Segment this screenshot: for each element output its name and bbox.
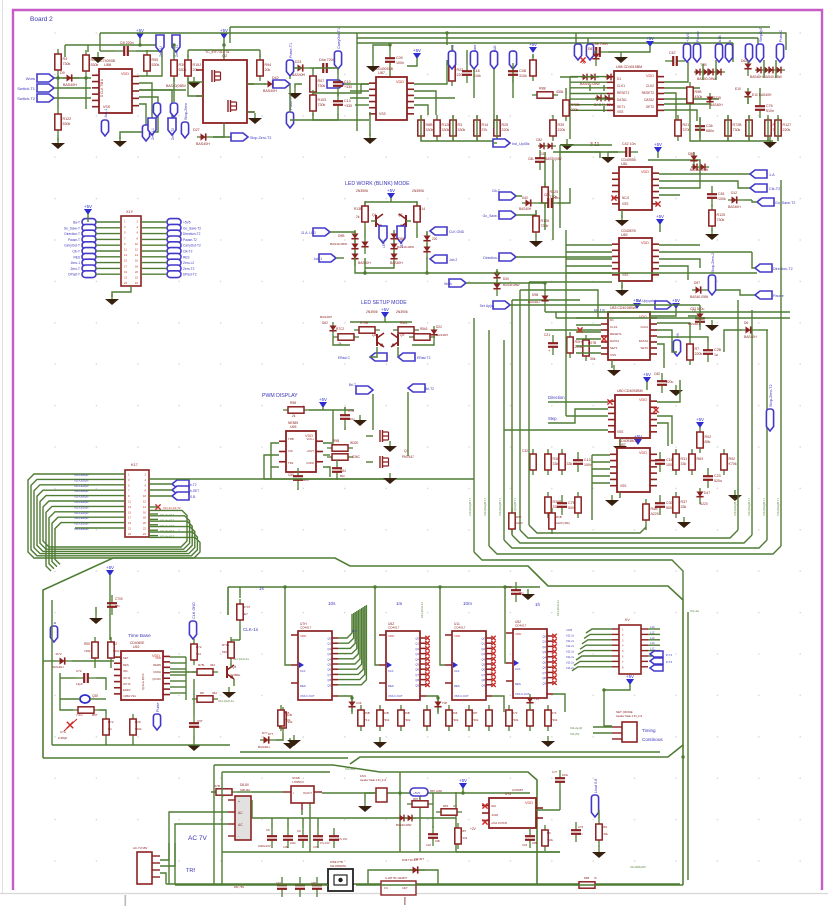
svg-text:Q0: Q0	[327, 637, 331, 641]
svg-text:98n: 98n	[115, 604, 120, 608]
svg-text:QC15C: QC15C	[152, 677, 161, 681]
svg-text:33k: 33k	[553, 462, 559, 466]
ground pwm mos1	[389, 441, 391, 446]
svg-text:730k: 730k	[717, 218, 725, 222]
svg-text:D9B: D9B	[338, 234, 345, 238]
svg-text:Q1: Q1	[542, 640, 546, 644]
svg-text:Switch-T1: Switch-T1	[17, 86, 36, 91]
svg-text:D6: D6	[744, 321, 748, 325]
svg-text:b-SET: b-SET	[190, 489, 199, 493]
wire caps rail	[222, 851, 560, 853]
ground A-mid	[119, 136, 121, 141]
svg-text:+5V: +5V	[654, 142, 662, 147]
svg-text:S36C: S36C	[352, 455, 361, 459]
svg-text:CLK: CLK	[300, 669, 306, 673]
SET/MODE left wires	[593, 726, 612, 728]
svg-text:R7B: R7B	[214, 784, 220, 788]
resistor R9C pwm	[327, 456, 353, 458]
wire pwm mos drains	[372, 394, 374, 430]
wire C09	[373, 45, 390, 61]
svg-text:VSS C.OUT: VSS C.OUT	[388, 694, 403, 698]
resistor Rtb1	[94, 637, 96, 663]
capacitor C2H right top	[515, 582, 517, 590]
junction	[56, 76, 59, 79]
resistor R81 130k	[598, 819, 600, 845]
svg-text:RES: RES	[73, 255, 80, 259]
svg-text:R72: R72	[512, 711, 518, 715]
svg-text:+5V: +5V	[646, 36, 654, 41]
svg-text:530k: 530k	[63, 122, 71, 126]
svg-text:CLK2: CLK2	[640, 325, 648, 329]
capacitor C48	[588, 51, 596, 53]
svg-text:Q1: Q1	[481, 642, 485, 646]
svg-text:C8L: C8L	[528, 157, 534, 161]
svg-text:CD4001BB: CD4001BB	[376, 67, 394, 71]
svg-text:X11-2a-(2): X11-2a-(2)	[570, 726, 582, 730]
svg-text:X11-LED(2x: X11-LED(2x	[74, 495, 89, 499]
svg-text:CD4017: CD4017	[454, 626, 466, 630]
svg-text:VSS: VSS	[622, 202, 628, 206]
resistor R22	[451, 60, 453, 86]
svg-text:A220 (30k): A220 (30k)	[556, 521, 570, 525]
svg-text:362: 362	[196, 652, 201, 656]
svg-text:b: b	[728, 40, 732, 42]
svg-text:Q2: Q2	[222, 54, 227, 58]
left components W1S	[552, 335, 554, 343]
svg-text:LEP T.: LEP T.	[382, 239, 386, 248]
wires U80 right	[657, 380, 680, 402]
svg-text:R02: R02	[705, 435, 712, 439]
svg-text:Header Male 2.54_1x3: Header Male 2.54_1x3	[616, 714, 643, 718]
svg-text:C13: C13	[584, 458, 591, 462]
ground pwm mos2	[389, 473, 391, 478]
svg-text:BAS40-08W: BAS40-08W	[396, 823, 412, 827]
wire Q2 bottom loop	[213, 123, 224, 137]
header SET/MODE	[622, 722, 637, 742]
svg-text:BAS40H: BAS40H	[528, 300, 540, 304]
svg-text:DATA1: DATA1	[617, 98, 627, 102]
resistor R5k3	[393, 329, 419, 331]
svg-text:U82: U82	[621, 233, 628, 237]
wires IC2 right	[414, 60, 447, 84]
svg-text:O(OUT: O(OUT	[303, 791, 312, 795]
svg-text:INC: INC	[123, 669, 128, 673]
wires TR to AC	[160, 812, 228, 860]
transistor block Q2 IRF7309	[203, 60, 247, 123]
svg-text:VSS C.OUT: VSS C.OUT	[515, 692, 530, 696]
svg-text:Switch-T2: Switch-T2	[17, 96, 36, 101]
svg-text:Q9: Q9	[415, 683, 419, 687]
svg-text:R05: R05	[284, 711, 290, 715]
svg-text:+330: +330	[344, 104, 352, 108]
resistor R98 pwm	[283, 409, 309, 411]
svg-text:530k: 530k	[152, 63, 160, 67]
svg-text:CLK-1s: CLK-1s	[243, 627, 259, 632]
svg-text:15: 15	[124, 259, 128, 263]
svg-text:R8: R8	[547, 831, 551, 835]
svg-text:33k: 33k	[567, 462, 573, 466]
svg-text:C4(T: C4(T	[402, 886, 408, 890]
diode D6 right W1S	[742, 329, 758, 331]
svg-text:21: 21	[128, 527, 132, 531]
svg-text:CIS: CIS	[288, 449, 293, 453]
svg-text:+3V3: +3V3	[686, 33, 690, 42]
svg-text:BAS40(05V: BAS40(05V	[545, 157, 563, 161]
svg-text:310k: 310k	[519, 74, 527, 78]
svg-text:CLK GND: CLK GND	[192, 602, 196, 619]
svg-text:Uout 5.8: Uout 5.8	[594, 779, 598, 793]
svg-text:CLK2: CLK2	[646, 84, 654, 88]
svg-text:47u 16V: 47u 16V	[320, 841, 330, 845]
capsule Pulse-T1 left	[286, 60, 293, 76]
svg-text:S.B.: S.B.	[190, 495, 196, 499]
svg-text:Pause: Pause	[696, 31, 700, 42]
svg-text:RES: RES	[183, 255, 190, 259]
resistor A87	[457, 823, 459, 849]
svg-text:R87: R87	[472, 711, 478, 715]
svg-text:1s: 1s	[259, 586, 265, 591]
svg-text:18: 18	[135, 264, 139, 268]
wire KV stub	[604, 712, 612, 726]
svg-text:REIZN: REIZN	[153, 663, 161, 667]
KV right flags	[650, 651, 663, 657]
svg-text:R5k1: R5k1	[400, 321, 408, 325]
svg-text:RESET1: RESET1	[610, 332, 622, 336]
svg-text:89k: 89k	[705, 440, 711, 444]
svg-text:R63: R63	[697, 457, 704, 461]
ground block C left	[294, 88, 296, 93]
svg-text:Work: Work	[26, 76, 35, 81]
svg-text:StepUpT: StepUpT	[759, 26, 763, 42]
flag vert Zero-U2	[156, 35, 164, 52]
svg-text:330k: 330k	[458, 128, 466, 132]
resistor R13B LW-left	[364, 201, 366, 227]
svg-text:33k: 33k	[681, 505, 687, 509]
ground C09	[372, 61, 374, 66]
svg-text:BAS40-08W: BAS40-08W	[330, 242, 347, 246]
container bottom-power top edge	[214, 765, 537, 884]
svg-text:3m: 3m	[453, 804, 458, 808]
svg-text:Q7: Q7	[415, 673, 419, 677]
svg-text:C32: C32	[522, 843, 528, 847]
wires U82 left	[566, 244, 612, 246]
svg-text:VSS: VSS	[617, 430, 623, 434]
svg-text:VDD: VDD	[300, 634, 307, 638]
flag vert Pulse tb	[153, 714, 160, 730]
resistor R72B	[727, 115, 729, 141]
svg-text:Q3: Q3	[415, 652, 419, 656]
wire nest horizontals into stack	[529, 281, 612, 283]
svg-text:R7C2: R7C2	[336, 327, 344, 331]
svg-text:15: 15	[128, 510, 132, 514]
svg-text:Q6: Q6	[542, 666, 546, 670]
svg-text:+5V: +5V	[626, 674, 634, 679]
svg-text:D67: D67	[588, 47, 594, 51]
svg-text:CLK: CLK	[454, 669, 460, 673]
resistor R39L	[552, 115, 554, 141]
svg-text:Q8: Q8	[415, 678, 419, 682]
capacitor C72 tb	[76, 677, 84, 679]
svg-text:D47: D47	[704, 491, 710, 495]
svg-text:Q8: Q8	[481, 678, 485, 682]
svg-text:U52: U52	[133, 645, 139, 649]
svg-text:SW-DB0(8SF: SW-DB0(8SF	[330, 864, 347, 868]
svg-text:R88: R88	[539, 87, 546, 91]
container timing bottom	[43, 757, 348, 759]
diode stack D98 right	[393, 230, 395, 246]
svg-text:Pause-T: Pause-T	[68, 238, 80, 242]
wires U86 right pins	[664, 62, 688, 82]
resistor R72Bleft	[565, 95, 567, 121]
svg-text:Q9: Q9	[542, 681, 546, 685]
container counters box top	[228, 586, 540, 588]
diode stack D9B left	[354, 230, 356, 246]
flag Job-1 LW	[319, 254, 336, 262]
svg-text:VDD: VDD	[639, 451, 647, 455]
svg-text:Q6: Q6	[327, 668, 331, 672]
svg-text:C77: C77	[552, 770, 558, 774]
svg-text:12: 12	[135, 248, 139, 252]
svg-text:D8-8V: D8-8V	[240, 783, 250, 787]
container timing outer2	[42, 757, 44, 759]
svg-text:X11-2x: X11-2x	[566, 644, 575, 648]
resistor R8B2	[532, 55, 534, 81]
svg-text:+5V: +5V	[696, 417, 704, 422]
capsule Zero-D	[170, 103, 177, 117]
svg-text:VDD: VDD	[121, 72, 129, 76]
flag Stop-Zero-T2	[213, 136, 240, 138]
resistor R88 bottom right	[574, 884, 600, 886]
transistor Q4 tb 2x380H	[226, 666, 228, 678]
svg-text:520u: 520u	[666, 380, 674, 384]
capacitor C700	[111, 595, 113, 603]
svg-text:L7805CV: L7805CV	[292, 780, 304, 784]
svg-text:VDD: VDD	[388, 634, 395, 638]
svg-text:R7B-: R7B-	[198, 663, 205, 667]
svg-text:2200u/16V: 2200u/16V	[258, 844, 271, 848]
svg-text:X11-6x-K17: X11-6x-K17	[160, 513, 174, 517]
svg-text:R5k3: R5k3	[420, 327, 428, 331]
svg-text:2N3906: 2N3906	[356, 189, 368, 193]
wire nest right verticals	[737, 300, 739, 530]
svg-text:D23: D23	[295, 60, 301, 64]
svg-text:R72B: R72B	[733, 123, 743, 127]
wire c77	[559, 790, 561, 810]
wire bottom strip rails	[175, 884, 328, 886]
svg-text:T0P: T0P	[442, 701, 447, 705]
svg-text:1u: 1u	[714, 353, 718, 357]
flag ERasi-C	[370, 353, 387, 361]
svg-text:10n: 10n	[578, 832, 583, 836]
wire bus drops right	[575, 33, 577, 44]
svg-text:X/11(6x)(B.T): X/11(6x)(B.T)	[513, 498, 517, 516]
resistor R39B mid	[173, 55, 175, 81]
svg-text:R9B: R9B	[695, 90, 703, 94]
svg-text:720n: 720n	[553, 196, 560, 200]
svg-text:R14: R14	[482, 123, 489, 127]
caps row bottom	[271, 828, 273, 836]
svg-text:23: 23	[128, 532, 132, 536]
svg-text:Go_Save-T: Go_Save-T	[64, 226, 80, 230]
wire tb vcc	[109, 575, 111, 640]
flag Direction-T2 out	[718, 251, 752, 253]
svg-text:680n: 680n	[706, 129, 714, 133]
transistor Q9	[397, 334, 399, 346]
relay block L/W280T	[381, 881, 416, 895]
resistor R7B-362	[192, 671, 218, 673]
svg-text:730k: 730k	[383, 718, 390, 722]
right flank components U8C	[659, 452, 661, 460]
svg-text:U87: U87	[619, 443, 626, 447]
svg-text:X11-2x: X11-2x	[566, 639, 575, 643]
svg-text:730k: 730k	[318, 103, 326, 107]
wire bottom of stack	[645, 525, 647, 530]
svg-text:Q(:4+4+ 9(15C: Q(:4+4+ 9(15C	[142, 673, 145, 690]
svg-text:100n: 100n	[396, 61, 404, 65]
svg-text:21: 21	[124, 276, 128, 280]
IC U80 CD4093BM	[615, 395, 650, 438]
transistor Q7 2N3906	[405, 215, 407, 227]
svg-text:X11-Kx-K2-T2: X11-Kx-K2-T2	[163, 506, 181, 510]
IC U83 CD4015BW	[608, 312, 650, 360]
svg-text:CON2: CON2	[306, 461, 314, 465]
svg-text:X11-2x: X11-2x	[566, 666, 575, 670]
svg-text:RESET1: RESET1	[617, 91, 630, 95]
resistor R73B2	[354, 329, 380, 331]
svg-text:AC5087: AC5087	[512, 788, 523, 792]
svg-text:R13B: R13B	[354, 207, 363, 211]
svg-text:VSS C.OUT: VSS C.OUT	[300, 694, 315, 698]
svg-text:730k: 730k	[551, 718, 558, 722]
svg-text:BAS40-08W: BAS40-08W	[397, 245, 414, 249]
svg-text:R81: R81	[443, 804, 449, 808]
wire top bus 2	[230, 26, 770, 28]
svg-text:OUT1: OUT1	[123, 676, 131, 680]
flag CLK out	[750, 170, 767, 178]
svg-text:+5V5: +5V5	[566, 628, 573, 632]
svg-text:KV: KV	[625, 618, 630, 622]
svg-text:X11-2x: X11-2x	[566, 633, 575, 637]
left flank components U8C	[547, 449, 549, 475]
svg-text:R15J: R15J	[193, 63, 202, 67]
ground A-left	[57, 138, 59, 143]
svg-text:330k: 330k	[426, 128, 434, 132]
svg-text:R1B: R1B	[556, 515, 562, 519]
capacitor C77 b	[559, 770, 561, 778]
svg-text:D62: D62	[741, 59, 747, 63]
svg-text:TRB: TRB	[288, 437, 294, 441]
K17 bundle U-loop	[28, 474, 200, 558]
svg-text:DPast-T2: DPast-T2	[183, 273, 197, 277]
svg-text:VDD: VDD	[639, 398, 647, 402]
svg-text:X/11(6x)(B.T): X/11(6x)(B.T)	[733, 498, 737, 516]
svg-text:E10: E10	[735, 87, 741, 91]
diode D77 bottom	[260, 739, 276, 741]
resistor C36	[699, 118, 701, 126]
svg-text:X11-LED(2x: X11-LED(2x	[74, 505, 89, 509]
svg-text:+2V: +2V	[470, 827, 477, 831]
resistor Rtb2	[110, 637, 112, 663]
svg-text:R6B: R6B	[404, 711, 410, 715]
svg-text:Q22: Q22	[92, 694, 98, 698]
mosfet M2 pwm	[379, 456, 381, 468]
svg-text:BAS40H: BAS40H	[52, 665, 64, 669]
svg-text:C67: C67	[669, 51, 676, 55]
svg-text:K70k: K70k	[729, 462, 737, 466]
ground U80 topright	[675, 385, 677, 390]
svg-text:U86 CD4015BM: U86 CD4015BM	[616, 65, 642, 69]
svg-text:D9B: D9B	[532, 293, 538, 297]
ground FAN	[364, 801, 366, 806]
diode T09 below counters	[351, 698, 353, 714]
wire top rail block A	[65, 44, 162, 46]
wire LW transistor bases	[364, 227, 366, 238]
svg-text:9.38pF: 9.38pF	[58, 736, 68, 740]
svg-text:R6B: R6B	[364, 711, 370, 715]
svg-text:BAS40H: BAS40H	[258, 745, 270, 749]
svg-text:80n: 80n	[340, 474, 345, 478]
flag Direction-T mid	[499, 253, 516, 261]
flag 11A.LED	[313, 228, 330, 236]
svg-text:R2: R2	[113, 642, 117, 646]
svg-text:13: 13	[128, 505, 132, 509]
svg-text:X11-LED(2x: X11-LED(2x	[74, 527, 89, 531]
svg-text:D97: D97	[694, 281, 700, 285]
svg-text:130k: 130k	[602, 832, 608, 836]
svg-text:19: 19	[128, 521, 132, 525]
wire pwm top	[309, 409, 337, 411]
resistor R73b clk	[230, 637, 232, 663]
svg-text:Set.Up(cycle): Set.Up(cycle)	[636, 299, 656, 303]
svg-text:R103: R103	[318, 98, 327, 102]
svg-text:C2B: C2B	[714, 348, 722, 352]
svg-text:SET1: SET1	[610, 346, 618, 350]
svg-text:BAS40(05BV: BAS40(05BV	[166, 84, 187, 88]
svg-text:CD4060E: CD4060E	[130, 641, 145, 645]
svg-text:Q3: Q3	[542, 650, 546, 654]
resistor R73B	[767, 115, 769, 141]
wire counters bottom bus	[240, 751, 660, 753]
svg-text:X11-(CLK-1s: X11-(CLK-1s	[233, 657, 250, 661]
svg-text:+5V: +5V	[381, 307, 389, 312]
svg-text:X11-LED(2x: X11-LED(2x	[74, 473, 89, 477]
svg-text:R73B: R73B	[360, 321, 368, 325]
svg-text:16: 16	[135, 259, 139, 263]
svg-text:b1B: b1B	[718, 35, 722, 42]
svg-text:R127: R127	[783, 123, 792, 127]
svg-text:Q5: Q5	[542, 661, 546, 665]
svg-text:CarryOut-T1: CarryOut-T1	[337, 28, 341, 49]
svg-text:10: 10	[135, 242, 139, 246]
ground U8C bottom	[619, 492, 621, 498]
svg-text:X11-(CLK-1s: X11-(CLK-1s	[556, 599, 560, 616]
svg-text:16: 16	[143, 510, 147, 514]
svg-text:BAS40H: BAS40H	[688, 322, 700, 326]
svg-text:CD4017: CD4017	[300, 626, 312, 630]
wire clk1s	[239, 587, 241, 598]
resistor R22s	[409, 336, 435, 338]
ground R126	[535, 236, 537, 241]
svg-text:R07: R07	[318, 79, 325, 83]
svg-text:L1C: L1C	[650, 641, 655, 645]
resistor R80 b	[544, 825, 546, 851]
svg-text:PWM DISPLAY: PWM DISPLAY	[262, 393, 298, 399]
resistor R1B A220	[551, 508, 553, 534]
svg-text:C5Z: C5Z	[506, 585, 512, 589]
svg-text:Job-1: Job-1	[314, 257, 323, 261]
svg-text:+: +	[238, 800, 240, 804]
svg-text:RES: RES	[388, 684, 394, 688]
